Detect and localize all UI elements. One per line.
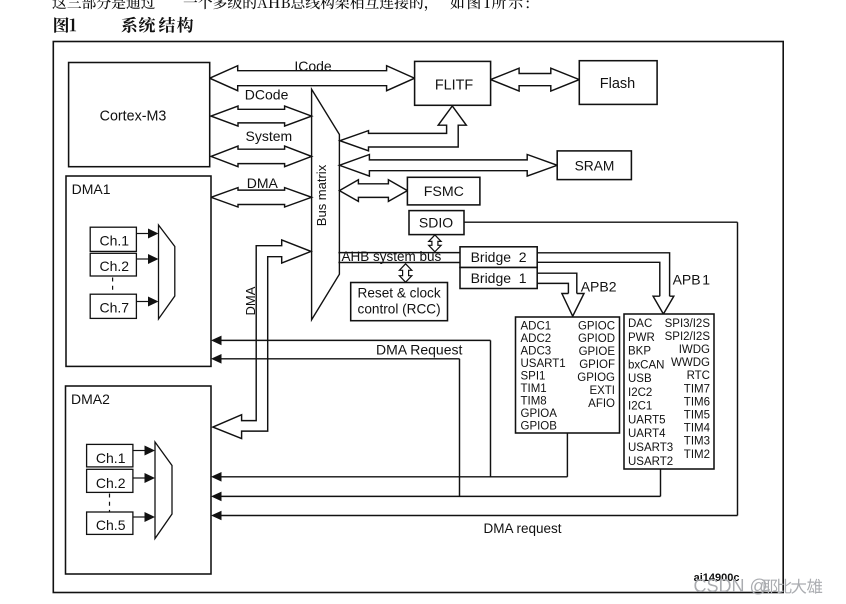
svg-text:ICode: ICode xyxy=(294,58,332,74)
block FLITF xyxy=(415,61,491,105)
svg-text:TIM4: TIM4 xyxy=(684,423,711,435)
svg-text:DMA1: DMA1 xyxy=(72,181,111,197)
branch vertical x=490.5 up to DMA1 line xyxy=(490,340,492,476)
DCode bus arrow (Cortex-M3 to bus matrix) xyxy=(211,106,312,126)
APB2 arrowhead into APB2 peripheral box xyxy=(562,294,584,317)
DMA1 Ch.1 to mux arrow xyxy=(136,233,150,235)
svg-text:bxCAN: bxCAN xyxy=(628,359,664,371)
svg-text:DMA: DMA xyxy=(247,175,279,191)
svg-text:AFIO: AFIO xyxy=(588,398,615,410)
svg-text:DAC: DAC xyxy=(628,318,652,330)
DMA2 Ch.2 to mux arrow xyxy=(133,477,147,479)
svg-text:GPIOE: GPIOE xyxy=(579,346,616,358)
APB2 peripherals box xyxy=(516,317,620,433)
wire APB2 requests to DMA2 (line y=476.8) xyxy=(214,476,567,478)
wire APB1 box bottom down xyxy=(660,469,662,496)
block Flash xyxy=(579,61,657,105)
svg-text:EXTI: EXTI xyxy=(589,385,615,397)
wire Bridge1 to APB2 (lower) xyxy=(537,283,568,293)
caption: 图1 系统结构 xyxy=(54,17,68,33)
wire APB1 requests to DMA2 (line y=496.4) xyxy=(214,495,661,497)
DMA1 channel Ch.2 xyxy=(90,253,136,276)
ICode bus arrow (Cortex-M3 to FLITF) xyxy=(210,66,415,91)
svg-text:DMA Request: DMA Request xyxy=(376,342,462,358)
APB1 arrowhead into APB1 peripheral box xyxy=(653,296,674,314)
block Reset & clock control (RCC) xyxy=(351,283,448,321)
svg-text:Bridge 2: Bridge 2 xyxy=(471,249,527,265)
svg-text:GPIOG: GPIOG xyxy=(577,372,615,384)
svg-text:TIM3: TIM3 xyxy=(684,436,710,448)
svg-text:RTC: RTC xyxy=(687,370,710,382)
DMA1 channel Ch.1 xyxy=(90,227,136,251)
svg-text:USART3: USART3 xyxy=(628,442,673,454)
svg-text:APB: APB xyxy=(673,272,701,288)
block Bridge 2 xyxy=(460,247,537,268)
svg-text:FSMC: FSMC xyxy=(424,184,464,200)
bent arrow: bus matrix to FLITF xyxy=(340,106,466,151)
svg-text:SPI3/I2S: SPI3/I2S xyxy=(665,318,711,330)
DMA2 channel Ch.2 xyxy=(87,469,133,492)
svg-text:TIM5: TIM5 xyxy=(684,410,710,422)
DMA Request line into DMA1 (y=340.4) xyxy=(214,339,491,341)
svg-text:DCode: DCode xyxy=(245,86,289,102)
block Bridge 1 xyxy=(460,268,537,289)
svg-text:GPIOD: GPIOD xyxy=(578,333,615,345)
svg-text:System: System xyxy=(246,128,293,144)
DMA request long line into DMA2 (bottom) xyxy=(214,515,738,517)
svg-text:SRAM: SRAM xyxy=(575,158,615,173)
svg-text:TIM1: TIM1 xyxy=(521,383,547,395)
DMA Request line into DMA1 (y=358.8) xyxy=(214,358,460,360)
svg-text:ADC3: ADC3 xyxy=(521,346,552,358)
svg-text:GPIOF: GPIOF xyxy=(579,359,615,371)
wire APB2 box bottom down xyxy=(566,433,568,477)
svg-text:USART1: USART1 xyxy=(521,358,566,370)
svg-text:DMA request: DMA request xyxy=(483,521,561,536)
svg-text:USB: USB xyxy=(628,373,652,385)
DMA2 channel Ch.1 xyxy=(87,444,133,467)
svg-text:TIM2: TIM2 xyxy=(684,449,710,461)
wire Bridge2 to APB1 (lower) xyxy=(537,262,660,296)
DMA2 dashed continuation xyxy=(109,494,111,512)
svg-text:APB2: APB2 xyxy=(581,279,617,295)
svg-text:AHB system bus: AHB system bus xyxy=(342,249,442,264)
DMA2 Ch.1 to mux arrow xyxy=(133,450,147,452)
svg-text:Reset & clock: Reset & clock xyxy=(358,285,441,300)
svg-text:Bus matrix: Bus matrix xyxy=(314,164,329,226)
svg-text:Cortex-M3: Cortex-M3 xyxy=(100,108,167,124)
branch vertical x=459.5 up to DMA1 second line xyxy=(459,359,461,497)
svg-text:CSDN @: CSDN @ xyxy=(694,576,768,596)
svg-text:TIM8: TIM8 xyxy=(521,395,547,407)
AHB bus to RCC vertical double arrow xyxy=(399,264,411,282)
AHB system bus lower line xyxy=(338,262,460,264)
FLITF to Flash double arrow xyxy=(491,68,580,91)
svg-text:Ch.7: Ch.7 xyxy=(100,299,130,315)
svg-text:IWDG: IWDG xyxy=(679,344,710,356)
DMA1 mux trapezoid xyxy=(159,225,175,319)
svg-text:DMA2: DMA2 xyxy=(71,391,110,407)
DMA2 mux trapezoid xyxy=(155,442,172,539)
svg-text:Ch.2: Ch.2 xyxy=(96,475,126,491)
svg-text:UART4: UART4 xyxy=(628,428,666,440)
svg-text:TIM7: TIM7 xyxy=(684,383,710,395)
block SRAM xyxy=(557,151,631,180)
svg-text:Bridge 1: Bridge 1 xyxy=(471,270,527,286)
block SDIO xyxy=(409,211,464,235)
svg-text:I2C2: I2C2 xyxy=(628,387,652,399)
svg-text:GPIOA: GPIOA xyxy=(521,408,558,420)
svg-text:Ch.5: Ch.5 xyxy=(96,517,126,533)
APB1 peripherals box xyxy=(624,314,714,469)
bus matrix to FSMC double arrow xyxy=(339,180,407,202)
svg-text:BKP: BKP xyxy=(628,346,651,358)
DMA1 Ch.7 to mux arrow xyxy=(136,301,150,303)
svg-text:Ch.1: Ch.1 xyxy=(96,450,126,466)
block DMA2 xyxy=(66,386,212,574)
svg-text:I2C1: I2C1 xyxy=(628,401,652,413)
right rail vertical (SDIO DMA request) xyxy=(737,222,739,515)
clipped Chinese paragraph line (top, cut off) xyxy=(52,0,155,9)
svg-text:control (RCC): control (RCC) xyxy=(358,301,441,316)
System bus arrow (Cortex-M3 to bus matrix) xyxy=(211,146,312,167)
svg-text:GPIOC: GPIOC xyxy=(578,320,615,332)
SDIO to AHB bus vertical double arrow xyxy=(429,235,441,252)
AHB system bus upper line xyxy=(338,252,460,254)
diagram outer frame xyxy=(53,42,783,593)
svg-text:PWR: PWR xyxy=(628,332,655,344)
DMA1 Ch.2 to mux arrow xyxy=(136,258,150,260)
big bent DMA arrow (DMA2 to bus matrix) xyxy=(213,240,311,439)
svg-text:Ch.1: Ch.1 xyxy=(100,233,130,249)
bus matrix to SRAM double arrow xyxy=(339,155,557,177)
wire Bridge1 to APB2 (upper) xyxy=(537,273,577,293)
svg-text:DMA: DMA xyxy=(243,286,258,315)
svg-text:USART2: USART2 xyxy=(628,456,673,468)
svg-text:Flash: Flash xyxy=(600,76,635,92)
svg-text:ADC2: ADC2 xyxy=(521,333,552,345)
wire Bridge2 to APB1 (upper) xyxy=(537,253,669,296)
svg-text:Ch.2: Ch.2 xyxy=(100,258,130,274)
svg-text:FLITF: FLITF xyxy=(435,77,474,93)
svg-text:GPIOB: GPIOB xyxy=(521,420,558,432)
svg-text:SPI2/I2S: SPI2/I2S xyxy=(665,331,711,343)
svg-text:SPI1: SPI1 xyxy=(521,371,546,383)
bus matrix trapezoid xyxy=(312,89,340,319)
wire SDIO to right rail xyxy=(464,221,738,223)
svg-text:ADC1: ADC1 xyxy=(521,321,552,333)
block Cortex-M3 xyxy=(69,63,210,167)
DMA1 channel Ch.7 xyxy=(90,294,136,318)
DMA2 Ch.5 to mux arrow xyxy=(133,516,147,518)
block DMA1 xyxy=(66,176,211,366)
DMA2 channel Ch.5 xyxy=(87,512,133,534)
DMA1 dashed continuation xyxy=(112,278,114,295)
svg-text:WWDG: WWDG xyxy=(671,357,710,369)
DMA bus arrow (DMA1 to bus matrix) xyxy=(211,188,312,207)
svg-text:1: 1 xyxy=(702,272,710,288)
svg-text:TIM6: TIM6 xyxy=(684,396,710,408)
svg-text:UART5: UART5 xyxy=(628,415,666,427)
svg-text:SDIO: SDIO xyxy=(419,215,453,231)
block FSMC xyxy=(407,177,480,205)
